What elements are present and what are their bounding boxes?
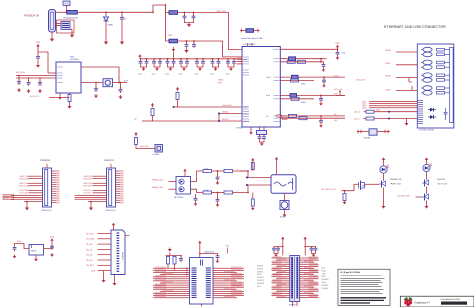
svg-text:C2: C2 (124, 18, 127, 21)
capacitor C9 left (18, 75, 20, 81)
svg-text:miniSMDC110F: miniSMDC110F (64, 17, 79, 20)
svg-text:100n: 100n (226, 73, 230, 76)
svg-text:Raspberry Pi: Raspberry Pi (415, 302, 430, 305)
resistor R58 (344, 190, 346, 194)
wire 5V0 into regulator (37, 51, 39, 53)
svg-text:TRD3-: TRD3- (385, 89, 391, 92)
capacitor C51 (217, 171, 219, 176)
svg-text:100n: 100n (179, 73, 183, 76)
CAM lower left wires (11, 196, 43, 202)
svg-text:"ACT" LED: "ACT" LED (437, 183, 448, 186)
wires into regulator left pins (16, 75, 56, 77)
wire D5 to ground (105, 21, 107, 40)
wire branch up to pin (219, 114, 242, 122)
resistor R22 (135, 138, 138, 145)
capacitor C44 (320, 116, 322, 120)
svg-text:STATUS: STATUS (437, 178, 446, 181)
wire ETH RXN row (280, 98, 314, 100)
blue dots jack input (246, 177, 248, 179)
ferrite F3 (169, 39, 178, 43)
wire cap pair to ground (197, 65, 203, 67)
ground of C11 (94, 94, 98, 98)
wire VBUS from J1 to fuse (56, 11, 67, 13)
U2 inner pin name texts (244, 58, 272, 123)
wire ESD ground (70, 30, 72, 34)
power arrow R52 (251, 158, 254, 163)
power arrow above R20 (176, 87, 179, 92)
svg-text:5V0_SYS: 5V0_SYS (30, 95, 39, 98)
bypass capacitor C20 (212, 58, 214, 60)
net ticks right (385, 130, 388, 133)
capacitor inside J2 (444, 108, 448, 120)
svg-text:RUN: RUN (17, 240, 22, 243)
ground of ESD (70, 33, 74, 38)
raspberry pi logo (404, 297, 413, 307)
ground of C43 (319, 102, 323, 106)
resistor R46 (366, 117, 374, 120)
ground of C9c (38, 89, 42, 93)
note bold footer lines (341, 298, 387, 303)
wire VDD33 link down (320, 59, 322, 62)
svg-text:VBUS: VBUS (218, 79, 224, 82)
svg-text:SD_DET: SD_DET (86, 264, 95, 267)
ground C71 C72 (274, 252, 278, 254)
U2 top pin stubs (248, 43, 253, 47)
junction (323, 76, 325, 78)
U8 left junction dots (186, 268, 188, 276)
ground arrow above pull resistors (168, 248, 172, 252)
wire C60 to RUN header (15, 244, 30, 249)
svg-text:J2 RJ45+2xUSB: J2 RJ45+2xUSB (419, 129, 434, 132)
svg-text:TP: TP (134, 118, 137, 121)
ferrite FB TBD (240, 30, 246, 32)
wire caps to common ground (185, 20, 194, 23)
svg-text:5V0_LAN: 5V0_LAN (334, 88, 343, 91)
resistor R45 (366, 110, 374, 113)
svg-text:LAN_RUN: LAN_RUN (222, 104, 232, 107)
capacitor C61 right (50, 244, 54, 250)
resistor R55 pulldown (252, 193, 254, 200)
capacitor C60 left (13, 245, 17, 251)
wire cap pair to ground (228, 65, 234, 67)
svg-text:100n: 100n (195, 73, 199, 76)
junction at C2 (121, 11, 123, 13)
svg-text:"PWR" LED: "PWR" LED (390, 183, 401, 186)
wire SD bottom left ground (103, 271, 105, 279)
capacitor C74 (314, 246, 318, 252)
wire left stub of R21 row (142, 120, 153, 122)
svg-text:GND: GND (322, 281, 327, 284)
svg-text:© Raspberry Pi 2014: © Raspberry Pi 2014 (441, 298, 461, 301)
svg-text:CP_DSI: CP_DSI (84, 192, 92, 195)
J8 right wire rows (300, 256, 319, 297)
svg-text:EEDIO: EEDIO (222, 110, 229, 113)
connector J1 micro-USB power (49, 10, 56, 33)
power arrow J8 left (281, 237, 284, 242)
svg-text:3V3: 3V3 (50, 235, 55, 238)
svg-text:GPIO2: GPIO2 (257, 265, 263, 268)
wire down J8 left power (282, 241, 284, 255)
resistor R41 (297, 60, 305, 63)
ground of R30 (68, 105, 72, 109)
junction (186, 40, 188, 42)
wire SD led net to Q1 (342, 184, 355, 190)
wire LED to Q2 (383, 173, 385, 179)
svg-text:CAMERA: CAMERA (40, 159, 51, 162)
wire run gnd (35, 255, 37, 258)
junction VDD33 (320, 58, 322, 60)
wire usb bundle (362, 100, 417, 103)
wire usb bundle (362, 103, 417, 106)
J8 left gray labels (257, 265, 264, 288)
svg-text:EECLK: EECLK (244, 120, 250, 123)
junction (193, 12, 195, 14)
stub caps at FB (242, 29, 259, 33)
IC RG2 RT8020A regulator (56, 62, 81, 93)
camera left boxed labels (3, 194, 14, 200)
wire row2 to jack (233, 185, 272, 193)
power arrow 5V0 right (336, 45, 339, 50)
connector J2 magjack outer body (417, 44, 454, 128)
wire SD_CMD (86, 238, 111, 241)
svg-text:DP: DP (266, 115, 269, 118)
svg-text:SMDB3Y 16: SMDB3Y 16 (390, 178, 402, 181)
LED D7 ACT green (423, 164, 432, 172)
svg-text:EXRES: EXRES (236, 127, 243, 130)
bypass capacitor C14 (167, 58, 169, 60)
power arrow 5V0 to regulator (36, 44, 39, 49)
svg-text:GND: GND (91, 269, 96, 272)
bypass capacitor C22 (227, 58, 229, 60)
wire SD bottom ground (114, 275, 116, 282)
wire 5V rail from fuse (77, 11, 153, 13)
svg-text:BC817: BC817 (280, 216, 286, 219)
wire power to U8 (199, 245, 201, 257)
svg-text:POWER IN: POWER IN (24, 14, 39, 18)
ground of C51 (216, 181, 220, 185)
svg-text:PWM0_OUT: PWM0_OUT (152, 179, 164, 182)
crystal X2 block (155, 145, 163, 153)
capacitor C8 (36, 54, 40, 60)
wire ETH TXN row (280, 80, 314, 82)
capacitor C30 (259, 135, 261, 137)
connector J6 SD card body (111, 230, 125, 275)
ground of C61 (50, 253, 54, 257)
ground of J1 (50, 37, 54, 42)
ground of crystal (260, 142, 264, 146)
wire PWM0 into IC3 (169, 181, 177, 183)
wire PWM1 into IC3 (169, 188, 177, 190)
note box frame (338, 269, 390, 305)
wire down to LED D6 (383, 162, 385, 166)
ferrite F2 (169, 11, 178, 15)
capacitor C4 (193, 13, 195, 16)
svg-text:TXOP: TXOP (266, 76, 271, 79)
wire status net to Q3b (416, 196, 421, 198)
svg-text:TRD1-: TRD1- (385, 62, 391, 65)
svg-text:RT8020A: RT8020A (70, 58, 79, 61)
svg-text:DP0_CAM: DP0_CAM (20, 177, 30, 180)
junction dot LAN_RUN (173, 106, 175, 108)
J6 right pin stub (125, 235, 130, 237)
capacitor C9b (28, 77, 30, 81)
wire down J8 right power (304, 241, 306, 255)
wire power into right cap (51, 243, 53, 245)
bypass capacitor C23 (233, 58, 235, 60)
LED2 green inside J2 (428, 115, 436, 119)
wire SD_D0 (86, 243, 111, 246)
shield outline around USB data pins (57, 20, 75, 33)
CAM right pin stubs (52, 170, 60, 203)
ground C73 C74 (312, 252, 316, 254)
crystal X1 (257, 131, 267, 135)
wire C2 to ground (121, 21, 123, 40)
ground of cap pair (229, 67, 233, 71)
ground of cap pair (214, 67, 218, 71)
connector DSI body (107, 168, 116, 207)
svg-text:5V0: 5V0 (36, 41, 41, 44)
svg-text:100n: 100n (138, 73, 142, 76)
title block frame (400, 296, 474, 307)
svg-text:ETHERNET AND USB CONNECTOR: ETHERNET AND USB CONNECTOR (384, 25, 446, 29)
wire U2 row 1V8 out (280, 61, 323, 63)
svg-text:PWM1_OUT: PWM1_OUT (152, 186, 164, 189)
J8 inner pin squares (291, 257, 298, 298)
ground of J6 (113, 282, 117, 286)
svg-text:GPIO22: GPIO22 (257, 282, 264, 285)
resistor R45b (291, 97, 299, 100)
ground of cap pair (182, 67, 186, 71)
wire Q3a down (426, 187, 428, 193)
U2 inner pin labels right (274, 49, 280, 121)
RUN header J Reset (29, 245, 44, 256)
svg-text:TRD0+: TRD0+ (385, 49, 392, 52)
junction (247, 170, 249, 172)
wire jack to Q4 (284, 193, 286, 200)
wire bypass rail into U2 (241, 59, 243, 64)
wire cap pair to ground (213, 65, 219, 67)
wire C8 gnd (37, 60, 39, 63)
svg-text:GPIO24: GPIO24 (322, 287, 329, 290)
wire R30 to ground (69, 102, 71, 105)
wire usb bundle (362, 105, 417, 108)
CAM ground branch (26, 202, 28, 206)
resistor R51 (224, 170, 233, 173)
left arrow label AUDIO_L (240, 170, 248, 172)
ground of C9 (17, 88, 21, 92)
svg-text:DP1_DSI: DP1_DSI (84, 185, 93, 188)
ground of cap pair (142, 67, 146, 71)
U8 bottom ground (201, 304, 203, 307)
svg-text:SD_CARD_LED: SD_CARD_LED (321, 188, 336, 191)
wire SD_CLK (86, 232, 111, 235)
capacitor C2 (120, 15, 124, 21)
wire U2 to crystal X1 (259, 127, 261, 131)
wire SD_D3 (86, 259, 111, 262)
capacitor C100 at top (63, 1, 70, 5)
wire SW pin loop (81, 67, 119, 83)
power arrow 1V8 feed (172, 47, 175, 52)
capacitor C3 (184, 13, 186, 16)
bypass capacitor C12 (153, 58, 155, 60)
svg-text:49R9: 49R9 (301, 101, 305, 104)
svg-text:NC7WZ16: NC7WZ16 (174, 196, 184, 199)
resistor R50 (203, 170, 212, 173)
IC U8 GPIO expander body (190, 258, 214, 305)
svg-text:U2 LAN9512: U2 LAN9512 (244, 43, 256, 46)
ferrite FB4 (290, 94, 297, 98)
svg-text:5V0_USB: 5V0_USB (16, 71, 25, 74)
svg-text:CL25/M: CL25/M (153, 153, 160, 156)
junction top rail (152, 11, 154, 13)
svg-text:GND: GND (322, 269, 327, 272)
ground of C2 (120, 40, 124, 45)
power arrow PWR led (382, 157, 385, 162)
svg-text:DP0_DSI: DP0_DSI (84, 177, 93, 180)
wire down to ferrite F2 (165, 5, 169, 13)
wire SD_D1 (86, 248, 111, 251)
J2 lower pin rows (418, 101, 423, 124)
component U5 usb power switch (357, 131, 369, 133)
resistor R42 (289, 114, 297, 117)
DSI top pin stub (110, 162, 111, 169)
power arrow of bypass rail (138, 54, 141, 59)
capacitor C42 (323, 77, 325, 79)
svg-text:SD_D3: SD_D3 (86, 259, 93, 262)
svg-text:J8 GPIO: J8 GPIO (289, 304, 297, 307)
svg-text:GPIO23: GPIO23 (322, 284, 329, 287)
U2 inner regulator pin dashes (57, 67, 63, 83)
resistor R53 (203, 191, 212, 194)
svg-text:BSS138 x2: BSS138 x2 (205, 250, 214, 253)
inductor L2 (103, 79, 113, 87)
svg-text:BAV99: BAV99 (364, 137, 371, 140)
resistor R20 (176, 93, 179, 100)
svg-text:5V0: 5V0 (336, 42, 341, 45)
ground of C50 (194, 202, 198, 206)
CAM left signal wires (20, 175, 43, 195)
junction (320, 61, 322, 63)
junction C44 (320, 115, 322, 117)
ground of Q2 (382, 205, 386, 209)
capacitor C11 out (95, 82, 97, 88)
junction dots EEDIO (218, 120, 220, 122)
diode D5 SMBJ5V0 TVS (104, 17, 109, 21)
bypass capacitor C17 (186, 58, 188, 60)
svg-text:5V0_USB: 5V0_USB (356, 79, 365, 82)
wire audio row1 from IC3 (191, 171, 204, 182)
buffer IC3 box (176, 177, 191, 195)
ground of C52 (216, 203, 220, 207)
DSI left signal wires (84, 175, 107, 195)
junction at diode (105, 11, 107, 13)
svg-text:DET: DET (218, 82, 223, 85)
svg-text:5V0: 5V0 (226, 245, 229, 248)
ground of Q4 (283, 213, 287, 217)
ground of cap pair (155, 67, 159, 71)
wire R50 to R51 (212, 170, 225, 172)
svg-text:SD_D2: SD_D2 (86, 254, 93, 257)
svg-text:100n: 100n (152, 73, 156, 76)
wire LED to Q3 (426, 172, 428, 179)
ground of R58 (343, 201, 347, 205)
capacitor C72 (276, 246, 280, 252)
ground of C9b (27, 89, 31, 93)
DSI lower left wires (75, 196, 107, 202)
J6 inner contact dashes (117, 233, 120, 271)
junction (217, 192, 219, 194)
wire R53 to R54 (212, 192, 225, 194)
svg-text:GND: GND (257, 273, 262, 276)
wire SD_D2 (86, 254, 111, 257)
wire Q4 ground (284, 210, 286, 214)
bypass capacitor C10 (140, 58, 142, 60)
label website bold (441, 302, 467, 305)
wires USB data pins to ESD (56, 23, 62, 25)
svg-text:TRD2+: TRD2+ (385, 75, 392, 78)
svg-text:1: 1 (110, 162, 111, 165)
svg-text:SD_CLK: SD_CLK (86, 232, 94, 235)
wire branch from 5V0 (38, 52, 48, 73)
net tie boxes USB (277, 115, 287, 119)
svg-text:Ferrite has value of TBD: Ferrite has value of TBD (241, 37, 263, 40)
bypass capacitor C16 (180, 58, 182, 60)
wire gnd rail (169, 253, 171, 256)
connector J8 GPIO header body (290, 256, 300, 302)
wire cap pair to ground (181, 65, 187, 67)
power arrow U8 (198, 241, 201, 246)
ground of D5 (104, 40, 108, 45)
wire USB DM row (280, 117, 345, 119)
U8 top inner stubs (201, 260, 203, 266)
transistor Q4 under jack (280, 201, 289, 210)
wire R22 to X2 (136, 145, 155, 149)
fuse F1 miniSMDC (67, 11, 78, 15)
capacitor C31 (263, 135, 265, 137)
power stub IC3 (184, 173, 186, 176)
wire R20 to U2 LAN_RUN pin (178, 100, 243, 108)
wire RN1 down to row (167, 264, 169, 268)
power arrow ACT led (425, 157, 428, 162)
U8 left wire rows (153, 267, 190, 298)
bypass capacitor C11 (146, 58, 148, 60)
svg-text:C40: C40 (342, 51, 345, 54)
wire branch to C70 (200, 254, 218, 256)
wire R46 to J2 (374, 118, 417, 120)
connector CAM body (43, 168, 52, 207)
wire crystal caps ground (260, 140, 265, 142)
U8 right wire rows (213, 267, 244, 298)
wire R45 to J2 (374, 111, 417, 113)
wire down to C8 (37, 49, 39, 56)
wire down to D5 (105, 12, 107, 16)
transformer T2 (421, 60, 450, 69)
power arrow 3V3 reset (50, 238, 53, 243)
ground of C5 (184, 48, 188, 53)
svg-text:GPIO27: GPIO27 (257, 279, 264, 282)
wire rail to LAN chip top right (205, 13, 242, 50)
wire audio row2 from IC3 (191, 189, 204, 192)
capacitor C9c (39, 77, 41, 81)
wire cap pair to ground (168, 65, 174, 67)
svg-text:<: < (237, 189, 239, 192)
power arrow J8 right (304, 237, 307, 242)
resistor R40 (287, 60, 295, 63)
junction DSI (90, 201, 92, 203)
wire J1 ground down (51, 32, 53, 37)
svg-text:GPIO4: GPIO4 (257, 270, 263, 273)
svg-text:100n: 100n (165, 73, 169, 76)
